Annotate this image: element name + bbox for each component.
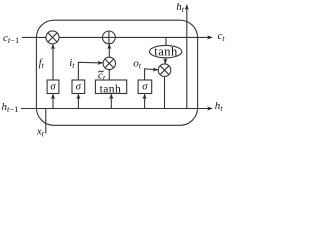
sigma box 1 (forget gate)	[47, 80, 59, 94]
svg-text:ft: ft	[39, 58, 45, 70]
svg-text:ht: ht	[176, 1, 185, 14]
wire: cell state line c (left to right)	[22, 36, 212, 38]
svg-text:ht−1: ht−1	[2, 101, 19, 114]
svg-text:xt: xt	[36, 127, 45, 139]
svg-text:σ: σ	[50, 82, 56, 93]
tanh box (candidate)	[95, 80, 126, 94]
wire: o_t elbow from sigma box4 into multiplier X3	[145, 69, 158, 80]
wire: hidden state line h (left to right)	[21, 108, 212, 110]
svg-text:ht: ht	[215, 100, 224, 113]
wire: multiplier X3 output down to h line	[164, 77, 166, 109]
wire: arrow from h line up into sigma box 1	[52, 94, 54, 108]
svg-text:it: it	[69, 57, 75, 70]
wire: arrow from h line up into sigma box 2	[77, 94, 79, 108]
sigma box 4 (output gate)	[138, 80, 152, 94]
wire: i_t elbow from sigma box2 into multiplier X2	[78, 62, 102, 80]
wire: tanh ellipse output into multiplier X3	[164, 58, 166, 64]
svg-text:tanh: tanh	[100, 84, 122, 96]
wire: x_t input rising to h line	[45, 109, 47, 134]
wire: h_t branch up to top output	[186, 5, 188, 109]
svg-text:ot: ot	[133, 58, 142, 71]
svg-text:σ: σ	[76, 82, 82, 93]
wire: f_t arrow from sigma box1 into multiplier X1	[52, 44, 54, 80]
wire: branch from c line down into tanh ellipse	[165, 37, 167, 45]
cell boundary rounded rectangle	[36, 20, 197, 125]
adder gate plus	[103, 31, 116, 44]
svg-text:σ: σ	[142, 82, 148, 93]
multiplier gate X2 (input)	[103, 57, 115, 69]
multiplier gate X1 (forget)	[46, 31, 59, 44]
multiplier gate X3 (output)	[158, 64, 171, 77]
wire: arrow from h line up into tanh box	[110, 94, 112, 108]
wire: arrow from h line up into sigma box 4	[144, 94, 146, 108]
svg-text:tanh: tanh	[154, 45, 178, 59]
svg-text:ct: ct	[218, 30, 226, 43]
sigma box 2 (input gate)	[72, 80, 85, 94]
wire: multiplier X2 output into adder	[108, 44, 110, 57]
tanh ellipse (state activation)	[150, 45, 182, 57]
svg-text:ct−1: ct−1	[3, 32, 19, 45]
wire: tanh box output into multiplier X2	[108, 70, 110, 80]
tilde over candidate c	[98, 71, 103, 73]
